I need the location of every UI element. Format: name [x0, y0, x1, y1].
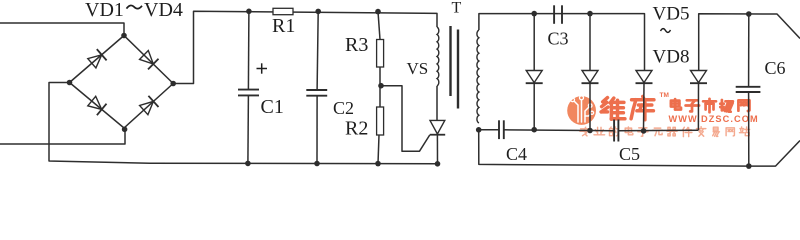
svg-text:VD1: VD1	[85, 0, 124, 21]
svg-text:C2: C2	[333, 98, 354, 118]
svg-text:R2: R2	[345, 118, 368, 140]
svg-text:C1: C1	[261, 96, 284, 118]
svg-text:VD5: VD5	[653, 4, 690, 25]
svg-text:C6: C6	[765, 58, 786, 78]
svg-text:VS: VS	[407, 59, 429, 78]
svg-text:C3: C3	[548, 29, 569, 49]
svg-text:C5: C5	[619, 144, 640, 164]
svg-text:C4: C4	[506, 144, 527, 164]
svg-text:VD8: VD8	[653, 47, 690, 68]
svg-text:R3: R3	[345, 34, 368, 56]
svg-text:T: T	[452, 0, 462, 17]
svg-text:TM: TM	[660, 92, 669, 99]
svg-text:WWW.DZSC.COM: WWW.DZSC.COM	[669, 114, 759, 124]
svg-text:VD4: VD4	[144, 0, 183, 21]
svg-text:R1: R1	[272, 15, 295, 37]
